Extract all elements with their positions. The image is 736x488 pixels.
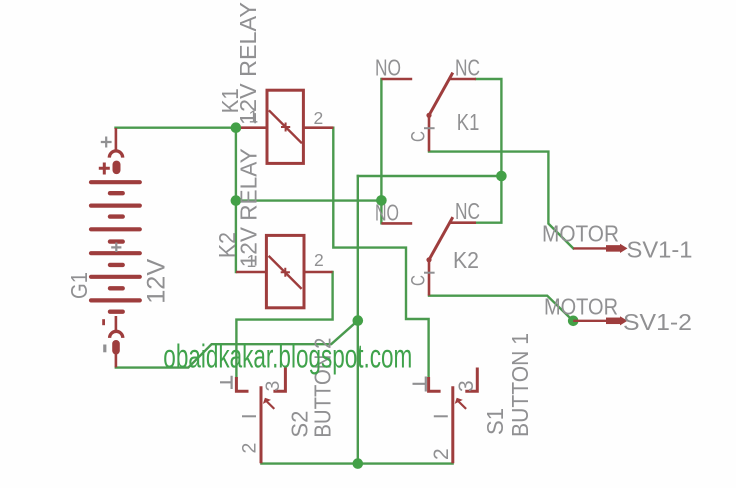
- svg-text:2: 2: [430, 448, 453, 460]
- svg-text:obaidkakar.blogspot.com: obaidkakar.blogspot.com: [163, 338, 412, 375]
- svg-text:2: 2: [238, 443, 260, 454]
- svg-text:S1: S1: [482, 408, 508, 435]
- svg-text:K1: K1: [457, 109, 480, 135]
- svg-text:SV1-2: SV1-2: [623, 309, 692, 335]
- svg-text:2: 2: [314, 108, 324, 128]
- svg-text:12V: 12V: [143, 258, 171, 303]
- svg-text:C: C: [409, 275, 430, 286]
- svg-text:3: 3: [455, 380, 478, 392]
- svg-text:3: 3: [262, 381, 284, 392]
- svg-text:NO: NO: [375, 54, 401, 80]
- svg-text:NC: NC: [455, 198, 480, 224]
- svg-text:12V RELAY: 12V RELAY: [235, 2, 261, 125]
- svg-text:12V RELAY: 12V RELAY: [235, 148, 261, 267]
- svg-text:K2: K2: [453, 247, 479, 273]
- svg-text:MOTOR: MOTOR: [542, 220, 619, 246]
- svg-text:SV1-1: SV1-1: [627, 237, 693, 263]
- svg-text:MOTOR: MOTOR: [544, 294, 618, 320]
- svg-text:G1: G1: [66, 272, 92, 299]
- svg-text:BUTTON 1: BUTTON 1: [507, 333, 533, 437]
- svg-text:2: 2: [314, 250, 324, 270]
- svg-text:NO: NO: [375, 200, 399, 226]
- svg-text:C: C: [409, 131, 430, 142]
- svg-text:NC: NC: [455, 54, 480, 80]
